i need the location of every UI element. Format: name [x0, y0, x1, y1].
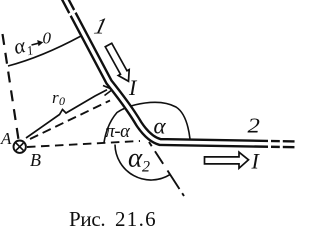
svg-text:Рис.: Рис. — [69, 207, 105, 231]
dashed horizontal line from B to bend — [27, 141, 140, 147]
combined pi-alpha / alpha arc over the bend — [104, 102, 190, 142]
dash gap near top of wire 1 — [66, 10, 78, 17]
dashed extension of wire 1 below bend — [149, 142, 184, 196]
dash gaps at right end of wire 2 — [268, 137, 271, 150]
svg-text:0: 0 — [43, 29, 52, 48]
current arrow on wire 2 (outline arrow) — [205, 152, 249, 168]
r0 arrowhead at wire — [103, 86, 113, 96]
svg-text:α: α — [128, 143, 143, 173]
wire (segment 1 diagonal + bend + segment 2 horizontal), double line — [64, 0, 295, 144]
svg-text:α: α — [154, 114, 167, 139]
point B: circle with cross (current into page symbol) — [14, 141, 26, 153]
svg-text:B: B — [30, 150, 41, 170]
label alpha1 -> 0 — [11, 31, 35, 61]
current arrow on wire 1 (outline arrow) — [105, 43, 129, 81]
svg-text:2: 2 — [248, 114, 260, 137]
svg-text:0: 0 — [59, 94, 65, 108]
arc alpha1 — [8, 36, 81, 66]
svg-text:21.6: 21.6 — [115, 207, 157, 231]
svg-text:A: A — [0, 129, 12, 148]
svg-text:2: 2 — [142, 159, 150, 176]
arc alpha2 under the bend — [115, 145, 170, 181]
r0 line from B to wire — [26, 90, 107, 138]
dashed line B to wire (companion of r0) — [30, 101, 110, 140]
dashed line through B (alpha1 reference, near-vertical) — [3, 34, 19, 140]
svg-text:π-α: π-α — [106, 122, 132, 142]
svg-text:r: r — [52, 88, 59, 107]
